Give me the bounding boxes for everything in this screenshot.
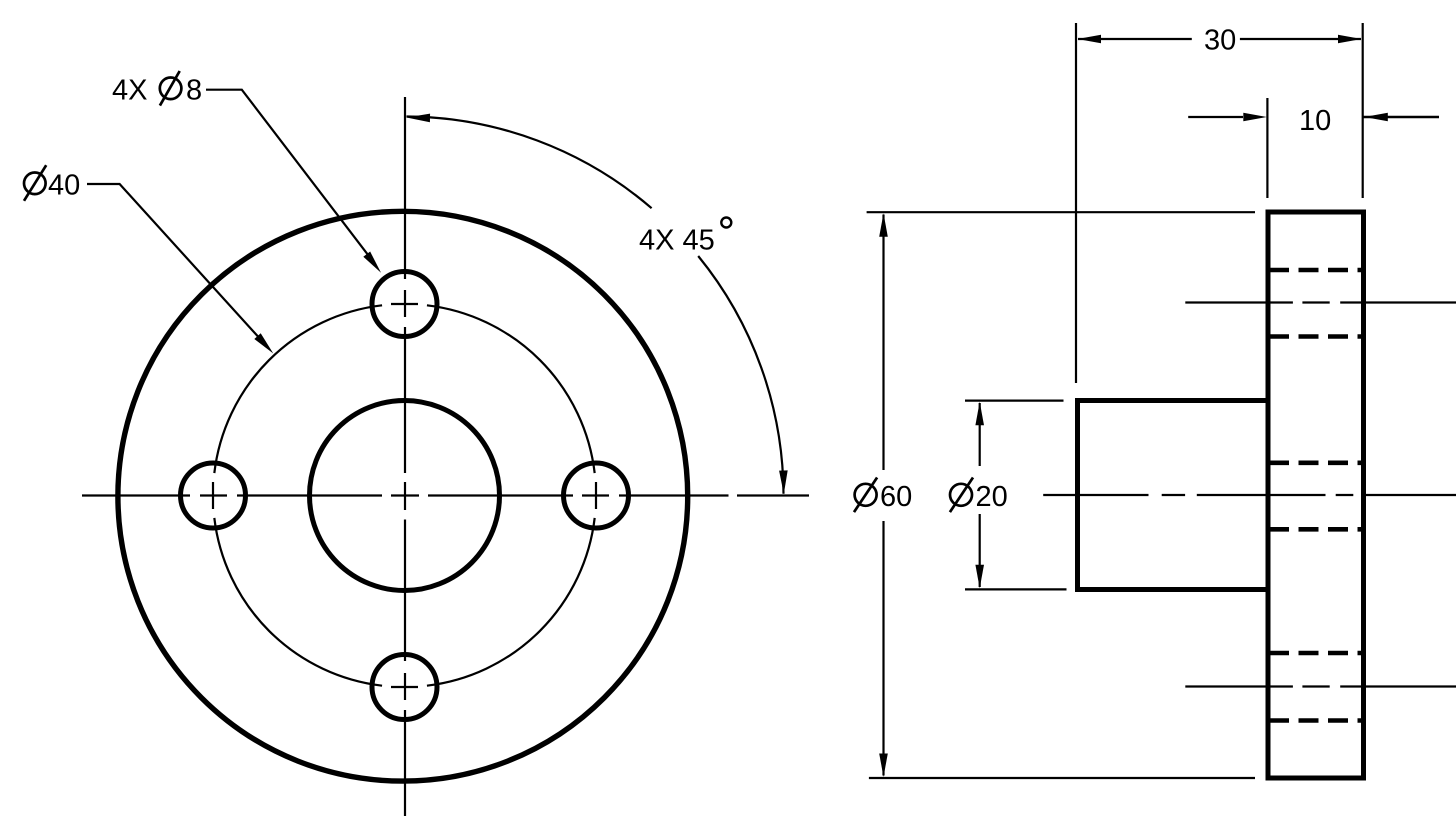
bolt circle Ø40 (thin) (214, 305, 594, 685)
text 4X 45deg (639, 218, 731, 257)
main centerline of side view (1043, 494, 1456, 496)
leader for 4X Ø8 (206, 90, 384, 276)
hole center marks (213, 304, 596, 687)
vertical centerline (404, 97, 406, 816)
top hole centerline (1185, 301, 1456, 303)
svg-text:4X: 4X (112, 75, 147, 107)
svg-text:10: 10 (1299, 105, 1331, 137)
angular dimension 4X 45deg (406, 113, 788, 494)
hidden lines: bottom hole (1269, 653, 1364, 721)
dimension 30 (1076, 23, 1363, 383)
label 4X Ø8 (112, 71, 202, 107)
horizontal centerline (82, 494, 809, 496)
label Ø40 (24, 165, 80, 201)
bolt hole top (372, 272, 437, 337)
svg-text:4X 45: 4X 45 (639, 224, 715, 256)
svg-text:60: 60 (880, 481, 912, 513)
hidden lines: side holes (1269, 463, 1364, 530)
flange plate (1268, 212, 1364, 778)
bolt hole right (564, 463, 629, 528)
bolt hole bottom (372, 655, 437, 720)
dimension Ø60 (854, 212, 1255, 778)
leader for Ø40 (87, 184, 276, 356)
svg-text:40: 40 (48, 169, 80, 201)
svg-text:8: 8 (186, 75, 202, 107)
outer circle Ø60 (118, 211, 688, 781)
dimension 10 (1188, 98, 1439, 198)
dimension Ø20 (950, 401, 1067, 590)
bolt hole left (181, 463, 246, 528)
hub outline (1078, 401, 1269, 590)
hub circle Ø20 (310, 401, 500, 591)
hidden lines: top hole (1269, 270, 1364, 337)
svg-text:20: 20 (976, 481, 1008, 513)
bottom hole centerline (1185, 685, 1456, 687)
svg-text:30: 30 (1204, 25, 1236, 57)
